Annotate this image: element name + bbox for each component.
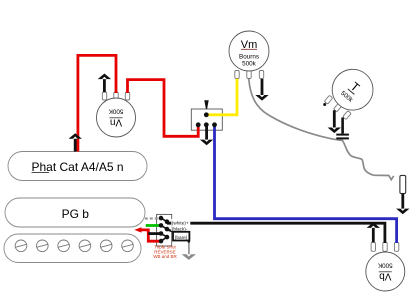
- switch node top: [204, 112, 209, 117]
- screw pole 2: [37, 240, 49, 252]
- connector pad link row1: [161, 218, 167, 222]
- ground arrow at Vm right lug (down): [255, 79, 268, 101]
- svg-text:500K: 500K: [377, 262, 393, 269]
- svg-text:PG b: PG b: [62, 207, 90, 221]
- connector pad link row3: [161, 234, 167, 238]
- connector pad R1: [165, 219, 170, 224]
- ground arrow at Vb left lug (up): [367, 222, 380, 242]
- connector J1 Triple Shot box: [157, 214, 172, 246]
- screw pole 1: [15, 240, 27, 252]
- screw pole 3: [58, 240, 70, 252]
- svg-text:(bare): (bare): [175, 235, 188, 240]
- svg-text:Bourns: Bourns: [239, 54, 259, 61]
- connector pad L3: [159, 231, 164, 236]
- label (black)-: [171, 226, 190, 232]
- potentiometer Vm: [229, 31, 269, 79]
- ground arrow gray at bare wire (down): [182, 243, 196, 260]
- screw pole 6: [122, 240, 134, 252]
- capacitor C1 lead: [341, 118, 344, 134]
- output jack: [400, 175, 406, 193]
- switch S1 box: [191, 109, 222, 130]
- wire yellow Vm left lug to switch: [206, 79, 237, 115]
- solder dot on T lug1: [323, 103, 326, 106]
- potentiometer Vn: [97, 92, 136, 137]
- wire blue switch to Vb right lug: [215, 126, 397, 243]
- wire red pickup1 hot to Vn middle lug: [78, 55, 116, 151]
- screw pole 4: [79, 240, 91, 252]
- svg-text:(white)+: (white)+: [172, 220, 189, 225]
- pickup P1 Phat Cat body: [8, 152, 147, 181]
- svg-text:WB and BR: WB and BR: [153, 254, 177, 259]
- wire green pickup2 to connector: [146, 224, 161, 227]
- wire black pickup2 link: [148, 232, 161, 235]
- ground arrow below switch (down): [200, 125, 213, 145]
- connector pad R2: [165, 227, 170, 232]
- ground arrow at Vn left lug (up): [98, 74, 111, 93]
- switch node bottom-right: [212, 122, 217, 127]
- potentiometer Vb: [366, 242, 405, 291]
- wire bare dashed gray: [145, 217, 158, 219]
- connector pad L4: [159, 239, 164, 244]
- potentiometer T (rotated): [320, 61, 382, 124]
- ground arrow at T pot lug2 (down): [328, 110, 341, 133]
- screw pole 5: [100, 240, 112, 252]
- svg-text:(black)-: (black)-: [172, 227, 188, 232]
- svg-text:500k: 500k: [242, 61, 257, 68]
- connector pad link row2: [161, 225, 167, 229]
- capacitor C1 plates: [336, 134, 349, 136]
- label (bare) box: [173, 232, 189, 241]
- wire black (black)- to ground: [167, 230, 189, 243]
- pickup P2 screw coil body: [4, 234, 141, 263]
- label (white)+: [171, 219, 190, 225]
- connector pad R3: [165, 235, 170, 240]
- svg-text:Phat Cat A4/A5 n: Phat Cat A4/A5 n: [31, 160, 123, 174]
- red wire tip at pickup2: [134, 227, 141, 232]
- wire red Vn right lug to switch: [128, 80, 199, 137]
- svg-text:500K: 500K: [108, 108, 124, 115]
- wire black hot (white)+ to Vb middle lug: [167, 223, 385, 243]
- ground arrow at pickup1 (up): [69, 133, 82, 151]
- connector pad L1: [159, 216, 164, 221]
- underline Phat: [32, 172, 50, 174]
- switch node bottom-left: [196, 122, 201, 127]
- pickup P2 PG b body: [5, 198, 145, 227]
- ground arrow at jack (down): [396, 194, 409, 215]
- connector pad link row4: [161, 237, 167, 241]
- switch node bottom-middle: [204, 122, 209, 127]
- wire gray Vm middle lug to cap and jack: [249, 79, 394, 180]
- switch toggle wedge: [204, 100, 208, 109]
- wire red pickup2 to connector: [138, 230, 161, 241]
- connector pad L2: [159, 223, 164, 228]
